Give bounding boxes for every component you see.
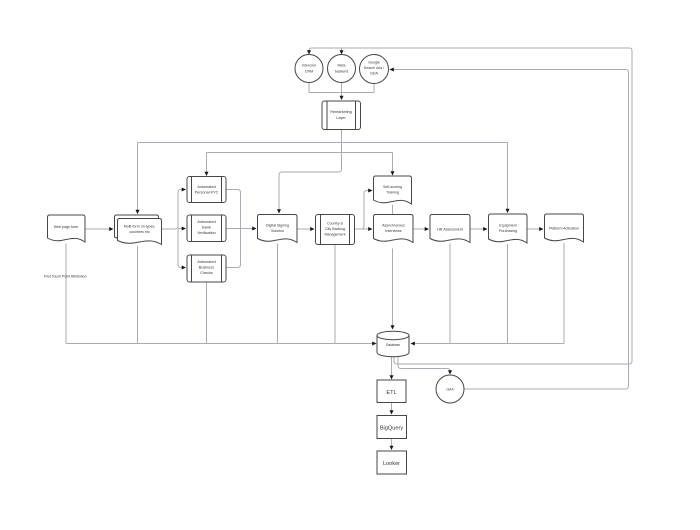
svg-text:ETL: ETL [386, 390, 396, 396]
node Automated Business Checks [187, 255, 226, 282]
wire asynchronous-to-database [392, 249, 394, 329]
wire GA4-to-GoogleAds loop [391, 70, 629, 390]
svg-text:Web page form: Web page form [54, 225, 79, 229]
node Looker [377, 451, 407, 474]
node Equipment Purchasing [489, 214, 528, 243]
node Platform Activation [545, 214, 584, 242]
wire bus B (personal KYC / self-scoring) [207, 152, 393, 154]
svg-text:EquipmentPurchasing: EquipmentPurchasing [499, 224, 517, 234]
wire branch into Meta circle [341, 48, 343, 53]
svg-text:Database: Database [386, 343, 400, 347]
wire country mgmt to self-scoring [355, 191, 372, 230]
wire self-scoring to asynchronous interviews [392, 205, 394, 214]
svg-text:Looker: Looker [383, 461, 400, 467]
svg-text:Platform Activation: Platform Activation [549, 227, 579, 231]
node Country & City Backlog Management [316, 215, 355, 245]
node Digital Signing Solution [258, 215, 298, 243]
wire equipment purchasing to platform activation [527, 228, 543, 230]
wire database-to-CRM/Meta remarketing feedback loop [309, 48, 632, 364]
svg-text:AutomatedPersonal KYC: AutomatedPersonal KYC [195, 185, 219, 195]
svg-text:Country &City BacklogManagemen: Country &City BacklogManagement [325, 222, 346, 237]
wire BigQuery to Looker [391, 439, 393, 450]
node Asynchronous Interviews [374, 215, 414, 243]
wire ETL to BigQuery [391, 403, 393, 414]
wire bus A (multi-form / equipment purchasing) [138, 142, 508, 144]
node ETL [377, 380, 406, 403]
node BigQuery [377, 416, 407, 439]
node Automated Personal KYC [187, 177, 226, 203]
wire HR assessment to equipment purchasing [470, 228, 487, 230]
wire automated stack to digital signing [226, 190, 241, 229]
wire multi-form to automated stack [162, 190, 186, 230]
node Web page form [48, 215, 86, 242]
svg-text:GA4: GA4 [446, 388, 453, 392]
svg-text:HR Assessment: HR Assessment [437, 228, 463, 232]
node Remarketing Layer [322, 101, 361, 130]
node Database cylinder [377, 336, 409, 357]
node Meta backend circle [328, 55, 356, 83]
wire circles-to-remarketing bus [308, 83, 310, 93]
wire left bus into database [65, 244, 67, 344]
node Google Search Ads / GDA circle [360, 55, 389, 84]
node Intercom CRM circle [295, 55, 323, 83]
node HR Assessment [430, 215, 470, 243]
wire web-page-form to multi-form [85, 228, 113, 230]
svg-text:First Touch Point Attribution: First Touch Point Attribution [44, 275, 87, 279]
wire remarketing-to-digital-signing [279, 130, 342, 213]
wire digital signing to country mgmt [297, 228, 314, 230]
svg-text:BigQuery: BigQuery [380, 426, 404, 432]
node Automated Bank Verification [187, 215, 226, 242]
node GA4 circle [436, 375, 464, 403]
wire database-to-GA4 [398, 356, 450, 374]
wire country mgmt to asynchronous [355, 228, 372, 230]
wire asynchronous to HR assessment [413, 228, 428, 230]
node Self-scoring Training [374, 176, 412, 204]
wire right bus into database [449, 244, 451, 344]
wire database to ETL [391, 356, 393, 379]
node Multi-form (multi document) [115, 215, 159, 241]
